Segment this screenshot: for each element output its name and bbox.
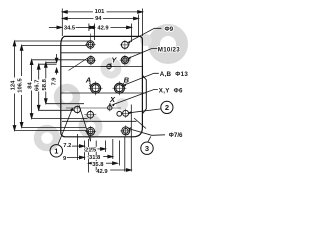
svg-text:M10/23: M10/23 [158,47,180,54]
dim 7.2 [72,145,84,147]
dim 9 [66,156,84,158]
plate body outline [61,36,143,136]
plate internal line 3 [61,92,147,94]
svg-text:124: 124 [11,80,17,90]
hole H6 bottom-right phi7/6 [120,125,131,136]
port A [89,81,103,95]
watermark ring mid-left [58,88,77,107]
bottom ext lines [76,134,78,160]
balloon 3 [141,142,153,154]
hole H2 top-right phi9 [120,40,130,50]
svg-text:3: 3 [145,144,149,153]
dim 7.9 vertical small [56,54,58,62]
svg-text:35.8: 35.8 [92,162,104,168]
balloon 1 [50,145,62,157]
dim 21.5 [98,148,106,150]
dim 34.5 [49,26,62,28]
hole H5 bottom-left [85,126,96,142]
slanted line to H3 [69,58,89,71]
svg-text:7.2: 7.2 [63,143,71,149]
svg-text:58.8: 58.8 [42,78,48,90]
watermark ring center-low [82,118,99,135]
balloon 2 [161,101,173,113]
ext line x88.9 [88,24,90,32]
hole M4 (balloon2 target) [121,109,130,118]
hole H1 top-left M10 [85,34,95,50]
hole H3 row2-left M10 [86,55,96,65]
plate right-side boss [142,75,146,114]
dim 124 vertical [14,41,16,78]
watermark ring lower-left [38,129,57,148]
watermark ring top-right [154,30,182,58]
svg-text:106.5: 106.5 [18,77,24,92]
svg-text:31.8: 31.8 [89,155,101,161]
svg-text:2: 2 [165,103,169,112]
hole M1 (balloon1 target) [74,105,80,114]
svg-text:34.5: 34.5 [64,25,76,31]
dim 58.8 vertical [45,62,47,78]
hole M2 [84,110,96,120]
port B [112,81,126,95]
ext line x138.5 [138,15,140,37]
svg-text:7.9: 7.9 [51,77,57,86]
dim 66.7 vertical [38,64,40,79]
dim 101 [62,11,93,13]
dim 84 vertical [31,60,33,81]
svg-text:Φ7/6: Φ7/6 [169,132,183,139]
plate internal line 1 [61,52,143,54]
dim 94 [62,18,93,20]
hole H4 row2-right M10 [120,55,130,65]
watermark blob top-right tip [140,34,152,46]
svg-text:21.5: 21.5 [85,148,97,154]
svg-text:66.7: 66.7 [35,80,41,91]
watermark ring center [104,61,118,75]
hole M3 [117,111,122,116]
watermark blob near H4 [121,56,131,66]
svg-text:94: 94 [95,16,102,22]
svg-text:Φ9: Φ9 [165,26,174,33]
svg-text:A: A [85,75,91,84]
dim 42.9 bottom [110,169,131,171]
svg-text:A,B Φ13: A,B Φ13 [160,71,189,78]
dim 42.9 top [90,26,95,28]
dim 106.5 vertical [21,45,23,76]
dim 31.8 [103,156,113,158]
plate internal line 4 [62,120,137,122]
svg-text:42.9: 42.9 [96,169,108,175]
hole X pilot + long centreline [66,104,121,111]
ext line x131.5 [131,24,133,43]
svg-text:101: 101 [95,9,105,15]
ext line right edge [142,9,144,37]
slanted line from M1 area down to bottom dims [79,105,91,141]
svg-text:42.9: 42.9 [97,25,109,31]
corner step line bottom-right [134,118,146,129]
ext line left shared [61,9,63,37]
watermark blob mid-right [116,98,128,110]
plate internal line 2 [61,66,143,68]
hole Y pilot [101,63,115,70]
svg-text:1: 1 [54,146,58,155]
svg-text:X,Y Φ6: X,Y Φ6 [159,87,183,94]
ext line x94.6 [94,24,96,41]
dim 35.8 [88,162,91,164]
svg-text:84: 84 [28,82,34,89]
